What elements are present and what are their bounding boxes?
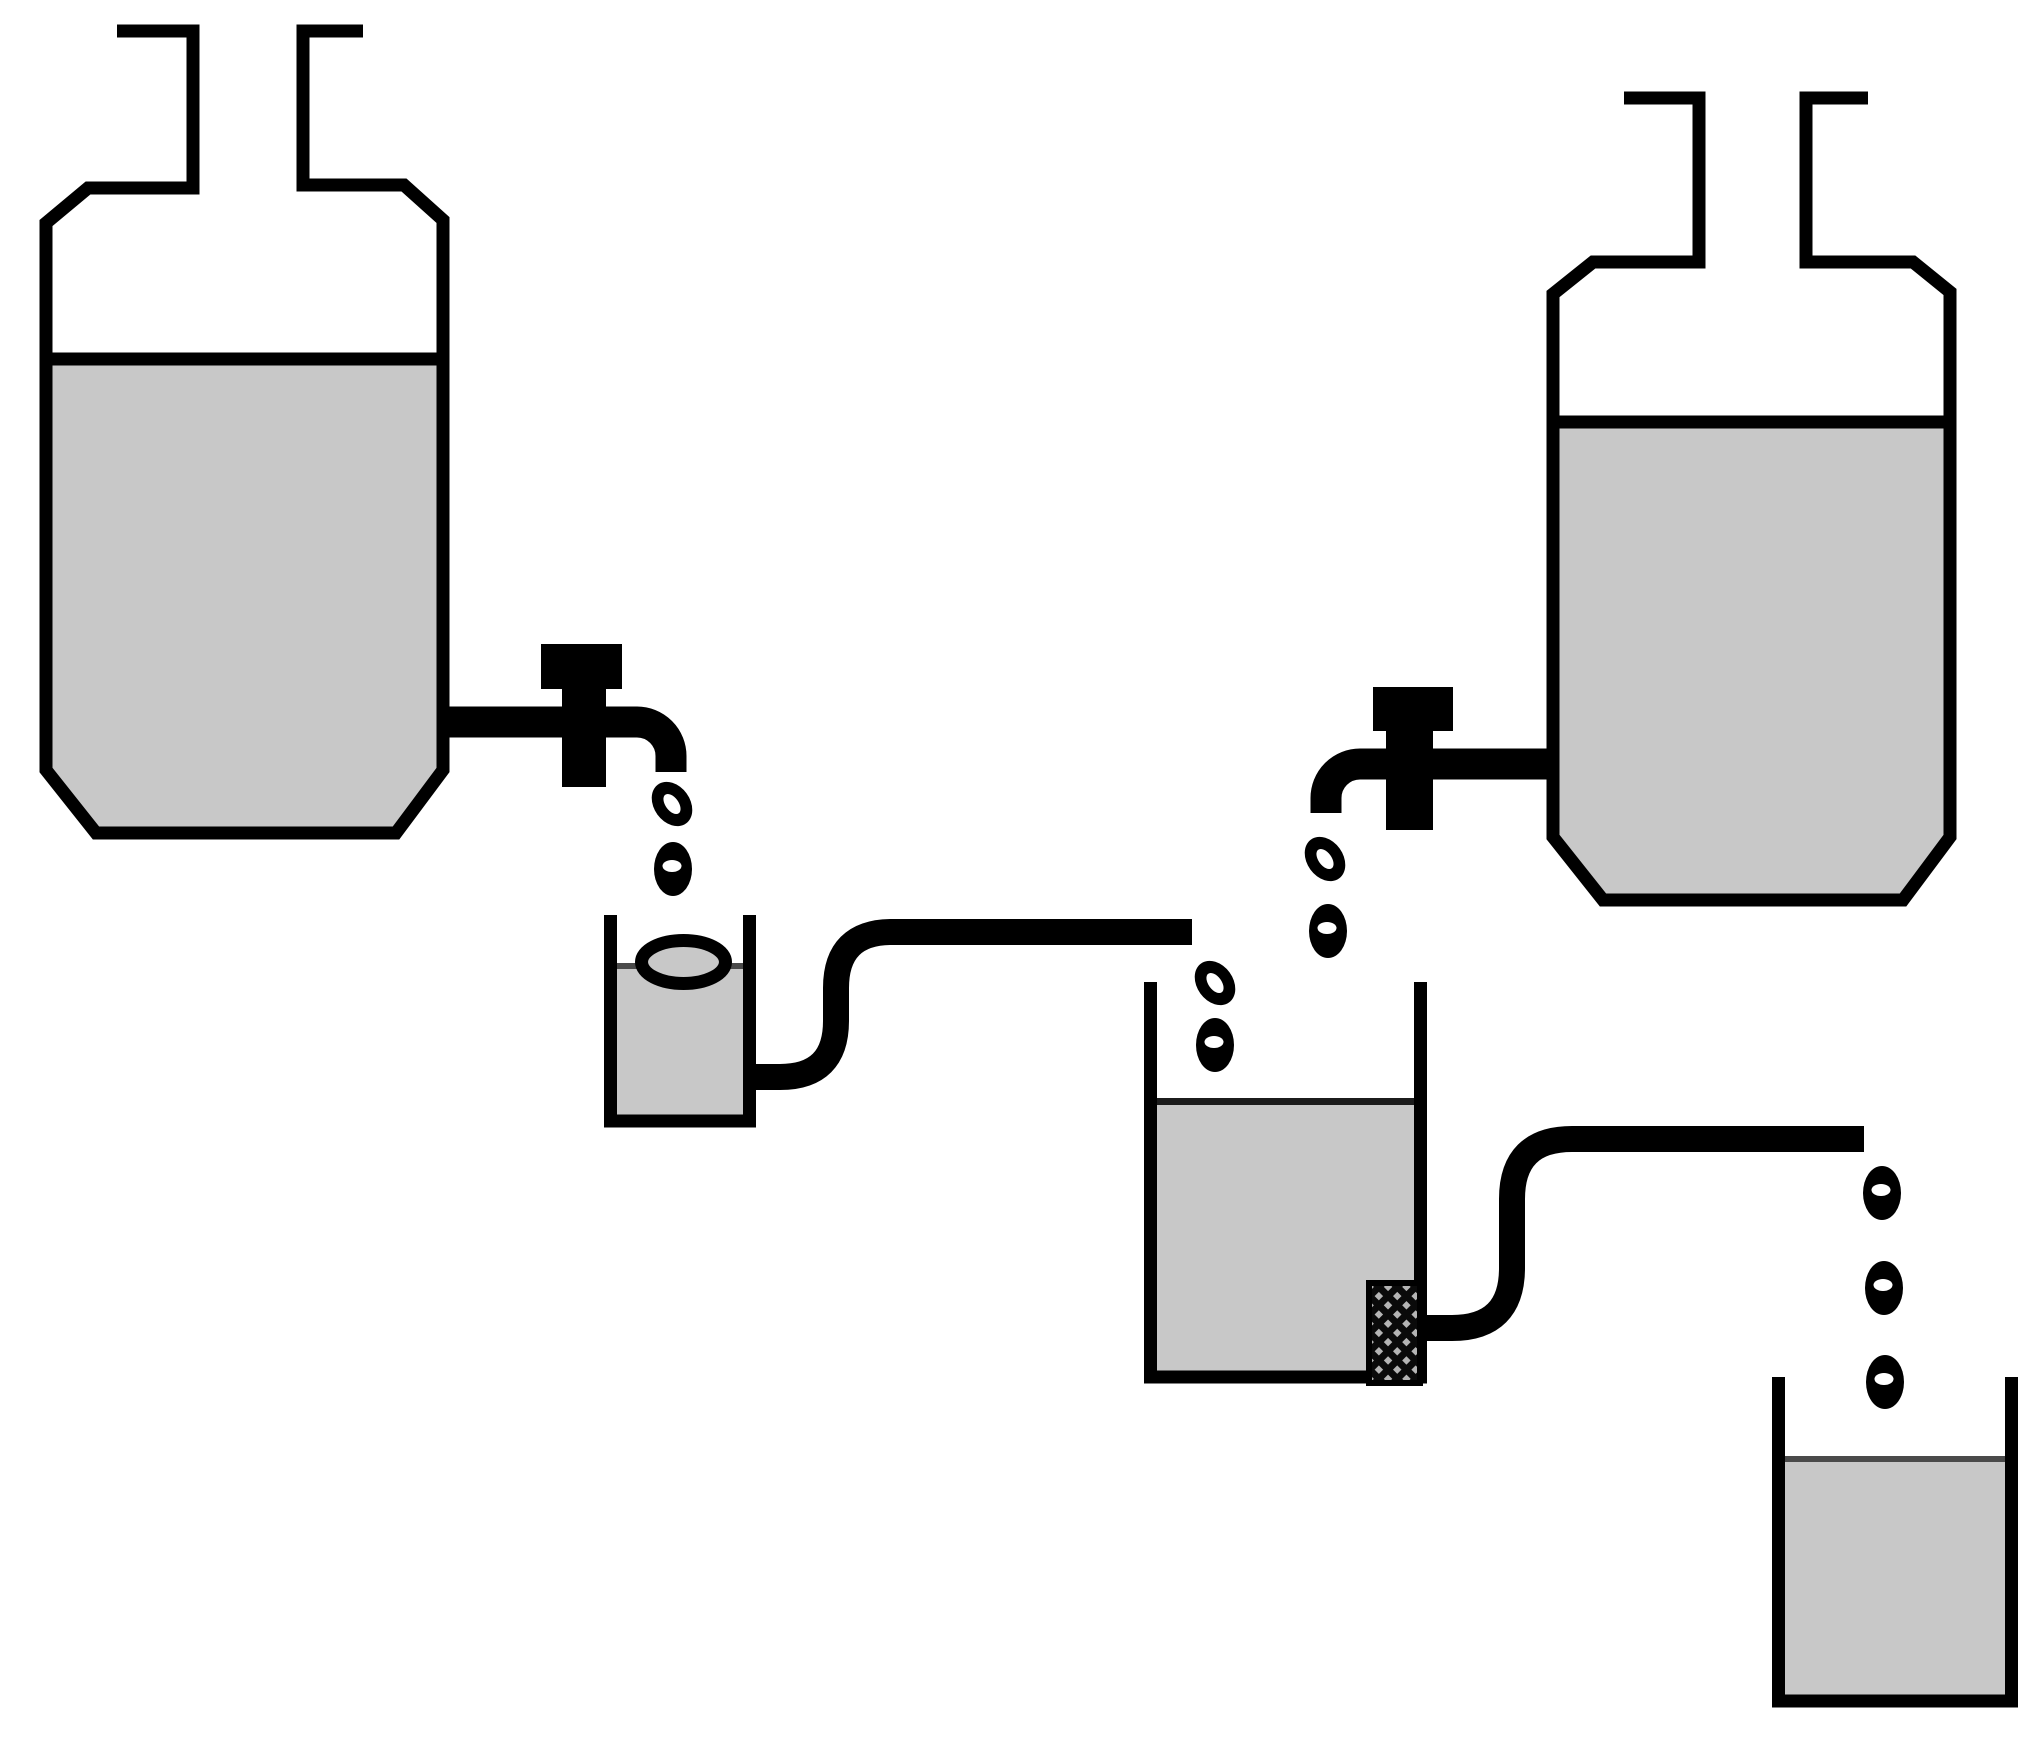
drop D2 — [1865, 1261, 1903, 1315]
beaker B2 walls — [1151, 982, 1421, 1377]
crosshatched plug in beaker B2 — [1369, 1283, 1420, 1383]
tank T1 outline — [46, 31, 443, 833]
drop C1 — [1296, 829, 1353, 889]
tank T1 liquid — [46, 359, 443, 829]
tank T2 liquid — [1553, 422, 1950, 896]
beaker B1 walls — [611, 915, 750, 1121]
drop A1 — [643, 774, 700, 834]
beaker B2 liquid — [1157, 1098, 1414, 1377]
drop D1 — [1863, 1166, 1901, 1220]
tank T2 outline — [1553, 98, 1950, 900]
drop D3 — [1866, 1355, 1904, 1409]
drop B1 — [1186, 953, 1243, 1013]
drop C2 — [1309, 904, 1347, 958]
splash ellipse in beaker B1 — [642, 941, 726, 984]
tank T2 liquid surface line — [1547, 416, 1956, 429]
tube from beaker B1 to beaker B2 — [756, 932, 1192, 1077]
drop B2 — [1196, 1018, 1234, 1072]
beaker B1 liquid — [617, 963, 744, 1115]
spigot S1 handle — [541, 644, 622, 689]
spigot S1 pipe — [443, 722, 671, 772]
spigot S2 stem — [1386, 703, 1433, 830]
spigot S2 handle — [1373, 687, 1453, 731]
beaker B3 liquid — [1785, 1456, 2005, 1695]
tube from beaker B2 to beaker B3 — [1427, 1139, 1864, 1328]
spigot S1 stem — [562, 660, 606, 787]
spigot S2 pipe — [1326, 764, 1553, 813]
tank T1 liquid surface line — [40, 353, 449, 366]
drop A2 — [654, 842, 692, 896]
beaker B3 walls — [1779, 1377, 2012, 1701]
